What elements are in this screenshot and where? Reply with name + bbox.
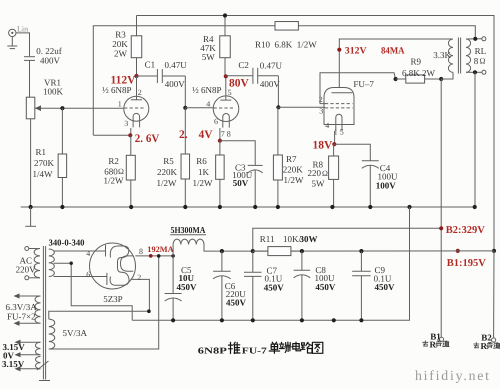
wire: secondary bottom to ground bus (474, 72, 476, 207)
svg-text:80V: 80V (229, 78, 250, 90)
svg-text:1/2W: 1/2W (284, 175, 305, 185)
svg-text:2.: 2. (179, 129, 188, 141)
wire: feedback rail to output (93, 26, 475, 136)
resistor R9 (396, 75, 442, 83)
svg-text:C2: C2 (238, 60, 249, 70)
svg-text:100V: 100V (376, 180, 397, 190)
tube V3 5Z3P rectifier (90, 243, 136, 289)
svg-text:2: 2 (138, 88, 142, 97)
node: ground bus / R5 bottom (183, 205, 187, 209)
capacitor C1 (137, 69, 186, 83)
wire: cathode2 to C3 (220, 141, 255, 165)
svg-text:1/4W: 1/4W (33, 169, 54, 179)
node: C8 top (300, 249, 304, 253)
svg-text:3.15V: 3.15V (2, 359, 25, 369)
svg-text:R10 6.8K 1/2W: R10 6.8K 1/2W (255, 39, 317, 49)
node: ground bus / PSU ground riser (407, 205, 411, 209)
node: B1 to top rail riser (492, 249, 496, 253)
wire: choke out to B line (204, 245, 494, 252)
wire: B+ to FU-7 plate and OPT primary (339, 39, 453, 88)
resistor R7 (273, 107, 282, 207)
svg-text:R11: R11 (260, 234, 275, 244)
svg-text:0.47U: 0.47U (165, 60, 188, 70)
wire: 5V top to pin2 net (49, 311, 149, 319)
tube FU-7 output pentode (324, 88, 354, 145)
svg-text:1K: 1K (198, 167, 210, 177)
wire: ground bus (21, 206, 475, 208)
svg-text:18V: 18V (313, 139, 334, 151)
capacitor C9 (352, 251, 371, 320)
capacitor 0.22uf input (24, 57, 35, 97)
terminal: B1 output (439, 337, 443, 341)
node: R9 left junction (394, 77, 398, 81)
capacitor C4 (362, 161, 379, 207)
capacitor C2 (226, 68, 279, 84)
wire: secondary top to terminal (466, 38, 482, 40)
wire: right edge riser to B2 terminal (493, 251, 495, 338)
node: C9 top (359, 249, 363, 253)
node: filter ground / C5 bottom (171, 318, 175, 322)
wire: C2 out to FU-7 grid (277, 76, 279, 108)
node: FU-7 grid junction (276, 105, 280, 109)
wire: grid wire to U1b pin4 (185, 107, 213, 109)
svg-text:1/2W: 1/2W (104, 176, 125, 186)
svg-text:2W: 2W (114, 49, 128, 59)
svg-text:450V: 450V (264, 282, 285, 292)
winding 3.15V lower (36, 356, 41, 368)
node: primary bottom / B2 junction (439, 77, 443, 81)
potentiometer VR1 (26, 97, 41, 207)
svg-text:84MA: 84MA (381, 46, 405, 56)
svg-text:8: 8 (139, 247, 143, 256)
winding OPT primary (448, 39, 453, 72)
svg-text:5W: 5W (202, 52, 216, 62)
svg-text:50V: 50V (233, 178, 249, 188)
svg-text:FU–7: FU–7 (353, 79, 374, 89)
node: filter ground / C7 bottom (251, 318, 255, 322)
inductor L1 choke 5H300MA (173, 239, 204, 244)
wire: B2 branch line (253, 228, 441, 251)
node: pin2/5V junction (147, 309, 151, 313)
wire: B2 riser and feed to bottom terminal (440, 79, 442, 337)
wire: pin2 to 5V winding (131, 279, 150, 311)
node: B1 195V (456, 249, 460, 253)
svg-text:1 5: 1 5 (334, 128, 344, 137)
wire: feedback join to cathode (93, 134, 130, 136)
svg-text:hifidiy.net: hifidiy.net (415, 368, 489, 383)
svg-text:20K: 20K (112, 39, 128, 49)
ground (core bottom) (37, 361, 50, 381)
wire: 3.15V taps (15, 340, 41, 372)
svg-text:400V: 400V (40, 56, 61, 66)
wire: B1 supply top rail (137, 16, 495, 251)
node: ground bus / R8 bottom (330, 205, 334, 209)
capacitor C5 (165, 256, 182, 320)
node: 312V plate node (337, 48, 341, 52)
node: 18V cathode node (332, 142, 336, 146)
winding 3.15V upper (36, 342, 41, 355)
core power transformer (42, 246, 44, 380)
wire: cathode output pin8 (135, 255, 173, 257)
node: filter ground / C9 bottom (359, 318, 363, 322)
svg-text:450V: 450V (226, 298, 247, 308)
node: 2.6V cathode node (128, 133, 132, 137)
svg-text:6: 6 (214, 117, 218, 126)
capacitor C6 (213, 251, 231, 320)
resistor R3 (131, 16, 142, 77)
node: 112V plate node (134, 74, 138, 78)
node: R4 top (223, 13, 227, 17)
node: C6 top (220, 249, 224, 253)
wire: HV bottom to 5Z3P pin6 (54, 276, 100, 278)
svg-text:312V: 312V (345, 45, 367, 56)
wire: secondary bottom to terminal (466, 71, 482, 73)
node: secondary top (473, 37, 477, 41)
wire: filter ground line (132, 207, 409, 320)
svg-text:R7: R7 (286, 154, 297, 164)
node: 2.4V cathode node (218, 139, 222, 143)
svg-text:1/2W: 1/2W (193, 178, 214, 188)
svg-text:6: 6 (86, 270, 90, 279)
svg-text:6N8P: 6N8P (198, 345, 228, 355)
node: stage2 grid junction (183, 106, 187, 110)
svg-text:5V/3A: 5V/3A (63, 328, 88, 338)
svg-text:400V: 400V (165, 79, 186, 89)
svg-text:1: 1 (118, 100, 122, 109)
capacitor C3 (248, 165, 263, 207)
svg-text:2: 2 (137, 273, 141, 282)
resistor R1 (58, 108, 67, 207)
svg-text:R6: R6 (196, 156, 207, 166)
node: R1 top junction (60, 106, 64, 110)
op-amp/tube U1b half 6N8P (213, 76, 239, 140)
wire: HV center tap to ground (54, 263, 133, 320)
wire: HV top to 5Z3P pin4 (54, 250, 100, 252)
node: ground bus / C3 bottom (253, 205, 257, 209)
svg-text:Lin: Lin (17, 25, 28, 34)
terminal: speaker - (482, 70, 486, 74)
svg-text:B1:195V: B1:195V (447, 258, 487, 269)
node: ground bus / R7 bottom (276, 205, 280, 209)
wire: 6.3V taps with arrows (14, 293, 41, 326)
svg-text:3.3K: 3.3K (433, 50, 451, 60)
wire: grid to FU-7 pin3 (278, 106, 325, 108)
input jack Lin (9, 29, 16, 45)
svg-text:Ω: Ω (480, 57, 486, 66)
resistor R10 (275, 22, 298, 31)
svg-text:400V: 400V (260, 79, 281, 89)
svg-text:FU-7: FU-7 (242, 345, 268, 355)
wire: cathode to C4 (334, 144, 370, 160)
svg-text:6.8K 2W: 6.8K 2W (402, 68, 435, 78)
terminal: AC primary bottom (25, 276, 29, 280)
node: filter ground / C6 bottom (220, 318, 224, 322)
svg-text:340-0-340: 340-0-340 (49, 237, 85, 247)
node: B2 329V (439, 226, 443, 230)
svg-text:FU-7×2: FU-7×2 (7, 311, 36, 321)
svg-text:R1: R1 (36, 147, 47, 157)
svg-text:220K: 220K (157, 167, 178, 177)
resistor R5 (181, 108, 190, 207)
svg-text:450V: 450V (375, 282, 396, 292)
svg-text:8: 8 (474, 56, 479, 66)
node: ground bus / R1 bottom (60, 205, 64, 209)
node: C7/B2 junction (251, 249, 255, 253)
svg-text:5W: 5W (312, 179, 326, 189)
terminal: AC primary top (25, 247, 29, 251)
svg-text:C1: C1 (145, 59, 156, 69)
svg-text:270K: 270K (34, 158, 55, 168)
node: filter ground / junction (332, 318, 336, 322)
wire: jack to coupling cap (16, 33, 30, 56)
svg-text:4: 4 (86, 249, 90, 258)
node: 80V plate node (224, 74, 228, 78)
capacitor C8 (294, 251, 311, 320)
svg-text:5Z3P: 5Z3P (103, 294, 123, 304)
node: secondary bottom (473, 70, 477, 74)
node: ground bus / C4 bottom (368, 205, 372, 209)
svg-text:192MA: 192MA (147, 245, 173, 254)
svg-text:Ω: Ω (322, 169, 328, 178)
svg-text:R5: R5 (163, 156, 174, 166)
wire: primary bottom to B2/R9 (441, 72, 453, 79)
svg-text:RL: RL (475, 46, 487, 56)
svg-text:450V: 450V (177, 282, 198, 292)
terminal: speaker + (482, 37, 486, 41)
svg-text:2. 6V: 2. 6V (135, 133, 160, 145)
svg-text:5H300MA: 5H300MA (171, 225, 206, 235)
svg-text:220V: 220V (16, 264, 36, 274)
node: 192MA (149, 254, 153, 258)
svg-text:4: 4 (325, 121, 329, 130)
svg-text:1/2W: 1/2W (157, 178, 178, 188)
capacitor C7 (244, 251, 261, 320)
svg-text:0. 22uf: 0. 22uf (36, 46, 62, 56)
winding 6.3V (35, 296, 40, 323)
svg-text:3: 3 (124, 119, 128, 128)
svg-text:220: 220 (308, 168, 322, 178)
svg-text:2: 2 (319, 95, 323, 104)
svg-text:R: R (430, 339, 437, 349)
winding AC primary (29, 248, 40, 250)
node: ground bus / R2 bottom (129, 205, 133, 209)
svg-text:½ 6N8P: ½ 6N8P (192, 85, 222, 95)
wire: wiper to grid of U1a (41, 107, 124, 109)
wire: choke risers (172, 245, 174, 256)
svg-text:R3: R3 (115, 29, 126, 39)
svg-text:R9: R9 (411, 56, 422, 66)
svg-text:4: 4 (206, 99, 210, 108)
wire: 5V bottom to pin8 net (49, 256, 159, 349)
ground (input jack) (7, 46, 17, 49)
node: filter ground / C8 bottom (300, 318, 304, 322)
resistor R6 (216, 141, 225, 207)
winding AC primary (34, 249, 40, 278)
wire: screen grid to R9 (320, 73, 396, 104)
resistor R2 (126, 135, 135, 207)
node: ground bus / R6 bottom (218, 205, 222, 209)
svg-text:B2:329V: B2:329V (446, 225, 486, 236)
svg-text:R2: R2 (108, 156, 119, 166)
wire: C1 out down to R5/grid junction (184, 76, 186, 108)
svg-text:½ 6N8P: ½ 6N8P (102, 85, 132, 95)
node: ground bus / speaker return (473, 205, 477, 209)
node: 5V return (157, 254, 161, 258)
node: choke input (171, 254, 175, 258)
terminal: B2 output (492, 338, 496, 342)
svg-text:450V: 450V (315, 282, 336, 292)
op-amp/tube U1a half 6N8P (124, 76, 149, 135)
core OPT (457, 38, 459, 74)
svg-text:220K: 220K (283, 164, 304, 174)
node: ground bus / VR1 bottom (29, 205, 33, 209)
svg-text:R: R (481, 341, 488, 351)
svg-text:0.47U: 0.47U (260, 61, 283, 71)
svg-text:3: 3 (319, 106, 323, 115)
winding 5V (49, 319, 55, 349)
svg-text:30W: 30W (300, 234, 318, 244)
resistor R8 (329, 144, 339, 207)
ground (bus stub) (25, 207, 36, 226)
svg-text:7 8: 7 8 (221, 129, 231, 138)
resistor R11 (253, 247, 302, 256)
winding OPT secondary (466, 39, 471, 72)
winding HV secondary (49, 249, 55, 277)
resistor R4 (220, 16, 231, 77)
svg-text:4V: 4V (199, 129, 214, 141)
svg-text:100K: 100K (43, 87, 64, 97)
